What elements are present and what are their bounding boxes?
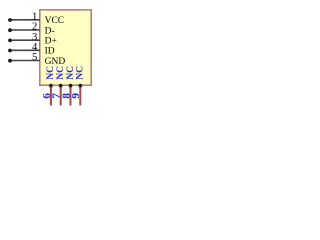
- wire pin 2: [10, 29, 40, 31]
- junction dot pin 2: [8, 28, 12, 32]
- svg-text:D+: D+: [45, 37, 57, 47]
- junction dot pin 4: [8, 49, 12, 53]
- wire pin 1: [10, 19, 40, 21]
- junction dot pin 1: [8, 18, 12, 22]
- svg-text:9: 9: [71, 92, 82, 98]
- connector body J1: [40, 10, 91, 85]
- wire pin 4: [10, 49, 40, 51]
- junction dot pin 9: [78, 84, 82, 88]
- svg-text:ID: ID: [45, 47, 55, 57]
- svg-text:5: 5: [32, 52, 37, 63]
- junction dot pin 5: [8, 59, 12, 63]
- svg-text:NC: NC: [75, 66, 86, 80]
- junction dot pin 3: [8, 39, 12, 43]
- wire pin 7: [60, 85, 62, 105]
- wire pin 6: [50, 85, 52, 105]
- junction dot pin 6: [49, 84, 53, 88]
- svg-text:VCC: VCC: [45, 16, 65, 26]
- svg-text:D-: D-: [45, 26, 55, 36]
- junction dot pin 8: [69, 84, 73, 88]
- wire pin 8: [70, 85, 72, 105]
- wire pin 9: [79, 85, 81, 105]
- svg-text:GND: GND: [45, 57, 66, 67]
- wire pin 3: [10, 39, 40, 41]
- wire pin 5: [10, 60, 40, 62]
- junction dot pin 7: [59, 84, 63, 88]
